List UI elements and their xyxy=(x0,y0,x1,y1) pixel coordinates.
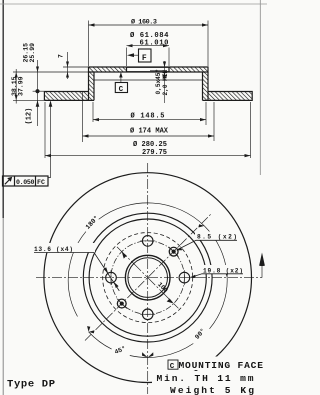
band top ext to dot xyxy=(33,90,45,92)
svg-text:19.8 (x2): 19.8 (x2) xyxy=(203,267,243,274)
centre bore chamfer circle xyxy=(125,255,170,300)
dim (12) xyxy=(37,91,39,126)
svg-text:8.5 (x2): 8.5 (x2) xyxy=(197,234,237,241)
svg-text:Min. TH 11 mm: Min. TH 11 mm xyxy=(157,373,254,384)
dim line D160.3 xyxy=(89,24,209,26)
dim 7 (plate thickness) xyxy=(63,66,89,68)
centre bore circle xyxy=(128,258,168,298)
bore plate edge thickening xyxy=(127,66,170,68)
circle view labels xyxy=(34,214,243,356)
svg-text:Ø 174 MAX: Ø 174 MAX xyxy=(130,127,169,136)
info block white mask xyxy=(152,357,264,395)
hat plate hatch left xyxy=(89,67,126,71)
pin hole lower-left xyxy=(117,299,126,308)
svg-text:C: C xyxy=(119,86,124,94)
dim D174 MAX xyxy=(82,92,84,143)
PCD 100 dimension diagonal xyxy=(117,247,178,308)
svg-text:MOUNTING FACE: MOUNTING FACE xyxy=(179,360,264,371)
sheet border left xyxy=(2,0,4,218)
svg-text:279.75: 279.75 xyxy=(142,149,167,157)
bolt hole left xyxy=(106,272,117,283)
svg-text:7: 7 xyxy=(58,54,65,58)
hidden circle (dashed) xyxy=(103,233,193,323)
bolt circle PCD100 (dash-dot) xyxy=(111,241,184,314)
pin hole upper-right xyxy=(169,247,178,256)
dim 38.15/37.99 xyxy=(15,69,17,104)
svg-text:2,0 MIN: 2,0 MIN xyxy=(162,70,169,96)
svg-text:Ø 280.25: Ø 280.25 xyxy=(133,140,167,149)
braking band right xyxy=(203,92,253,101)
runout tolerance leader xyxy=(48,104,51,178)
bolt hole bottom xyxy=(142,309,153,320)
runout symbol xyxy=(5,178,11,184)
chamfer leader xyxy=(150,70,164,72)
svg-text:25.99: 25.99 xyxy=(29,43,36,63)
sheet border right xyxy=(259,0,261,175)
hat wall right xyxy=(203,72,209,100)
svg-text:13.6 (x4): 13.6 (x4) xyxy=(34,246,73,253)
svg-text:0,5x45°: 0,5x45° xyxy=(155,69,162,95)
dim D280.25/279.75 xyxy=(44,102,46,158)
angular dimension arc ring xyxy=(68,203,228,358)
mounting face ext line (left) xyxy=(13,71,89,73)
svg-text:61.010: 61.010 xyxy=(140,40,169,48)
svg-text:Ø 160.3: Ø 160.3 xyxy=(131,17,157,26)
rotation arrow xyxy=(261,265,263,278)
datum C box xyxy=(115,83,127,93)
register depth line xyxy=(164,61,166,103)
hat plate outline xyxy=(89,67,209,72)
leader 13.6 (x4) xyxy=(34,240,243,291)
dim 26.15/25.99 xyxy=(37,60,39,91)
dim D148.5 xyxy=(92,102,94,122)
sheet border top xyxy=(0,3,267,5)
label masks xyxy=(33,232,244,274)
svg-text:Ø 148.5: Ø 148.5 xyxy=(131,112,165,121)
svg-text:F: F xyxy=(142,54,147,63)
band bottom ext (left) xyxy=(13,99,44,101)
type label xyxy=(7,379,55,391)
hat outer circle D174 xyxy=(83,213,212,342)
info block text xyxy=(157,360,264,395)
svg-text:37.99: 37.99 xyxy=(17,76,24,96)
svg-text:Weight 5 Kg: Weight 5 Kg xyxy=(170,385,254,395)
bore edge left xyxy=(126,67,128,72)
centrelines xyxy=(36,163,265,394)
hat interior line xyxy=(94,79,203,81)
svg-text:(12): (12) xyxy=(26,108,34,125)
bolt hole top xyxy=(106,236,190,320)
hat wall left xyxy=(89,72,95,100)
svg-text:C: C xyxy=(170,363,175,371)
arc arrowheads xyxy=(225,272,228,278)
GD&T feature control frame xyxy=(3,176,49,186)
horizontal centreline xyxy=(36,277,262,279)
hole centre ticks xyxy=(111,241,184,314)
hat edge circle D160.3 xyxy=(89,219,206,336)
svg-text:FC: FC xyxy=(37,179,45,186)
svg-text:Type DP: Type DP xyxy=(7,379,55,391)
bore edge right xyxy=(168,67,170,72)
hat plate hatch right xyxy=(169,67,207,71)
braking band left xyxy=(44,92,94,101)
leader 19.8 (x2) xyxy=(191,274,243,277)
datum F box xyxy=(139,49,152,62)
diagonal centreline through pin holes xyxy=(85,214,211,341)
bolt hole right xyxy=(179,272,190,283)
dim line D61.084/61.010 xyxy=(127,45,170,47)
disc outer circle xyxy=(44,173,252,383)
svg-text:0.050: 0.050 xyxy=(16,179,35,186)
leader 8.5 (x2) xyxy=(178,240,237,249)
vertical centreline xyxy=(147,163,149,394)
